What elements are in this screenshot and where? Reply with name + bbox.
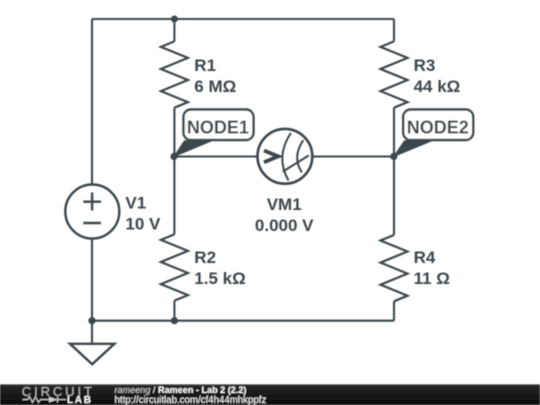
ground xyxy=(70,344,114,364)
wire: R3 bottom lead to NODE2 xyxy=(393,108,395,157)
resistor R3 xyxy=(381,41,408,107)
wire: R3 top lead xyxy=(393,19,395,41)
wire: left vertical to V1 top xyxy=(91,19,93,184)
svg-text:VM1: VM1 xyxy=(267,195,302,214)
label R2 value xyxy=(194,248,245,288)
CircuitLab logo mini schematic (resistor + diode) xyxy=(23,397,67,403)
svg-text:V1: V1 xyxy=(125,193,146,212)
label R4 value xyxy=(414,248,450,288)
svg-text:R4: R4 xyxy=(414,248,436,267)
svg-text:R1: R1 xyxy=(194,56,216,75)
CircuitLab footer bar xyxy=(0,384,540,405)
wire: bottom horizontal ground net xyxy=(92,320,394,322)
wire: VM1 right terminal to NODE2 xyxy=(312,155,394,157)
voltmeter VM1 xyxy=(258,129,313,184)
resistor R4 xyxy=(381,235,408,301)
svg-text:rameeng / Rameen - Lab 2 (2.2): rameeng / Rameen - Lab 2 (2.2) xyxy=(115,385,247,395)
wire: R4 bottom lead xyxy=(393,301,395,320)
wire: R2 bottom lead xyxy=(173,301,175,321)
svg-text:R3: R3 xyxy=(414,56,436,75)
wire: R1 top lead xyxy=(173,19,175,41)
svg-text:6 MΩ: 6 MΩ xyxy=(194,77,236,96)
resistor R1 xyxy=(161,41,188,107)
CircuitLab logo wordmark xyxy=(22,384,95,405)
wire: NODE1 to VM1 left terminal xyxy=(174,155,257,157)
label R3 value xyxy=(414,56,461,96)
node NODE2 junction dot xyxy=(390,153,397,160)
junction dot: top of R1 branch xyxy=(171,16,178,23)
resistor R2 xyxy=(161,234,188,300)
svg-text:0.000 V: 0.000 V xyxy=(255,216,314,235)
footer text: author / title xyxy=(115,385,267,405)
label VM1 value xyxy=(255,195,314,235)
svg-text:NODE2: NODE2 xyxy=(407,118,469,138)
wire: top horizontal net xyxy=(92,18,394,20)
wire: R1 bottom lead to NODE1 xyxy=(173,108,175,157)
junction dot: ground net at V1 xyxy=(88,317,95,324)
label R1 value xyxy=(194,56,236,96)
wire: R2 top lead from NODE1 xyxy=(173,157,175,235)
node NODE1 callout xyxy=(174,110,254,157)
node NODE1 junction dot xyxy=(170,153,177,160)
wire: R4 top lead from NODE2 xyxy=(393,157,395,236)
svg-text:11 Ω: 11 Ω xyxy=(414,269,450,288)
voltage source V1 xyxy=(65,185,119,239)
wire: ground lead xyxy=(91,321,93,343)
node NODE2 callout xyxy=(394,110,473,157)
junction dot: ground net at R2 xyxy=(171,317,178,324)
svg-text:http://circuitlab.com/cf4h44mh: http://circuitlab.com/cf4h44mhkppfz xyxy=(115,395,267,405)
label V1 value xyxy=(125,193,161,233)
svg-text:44 kΩ: 44 kΩ xyxy=(414,77,461,96)
svg-text:1.5 kΩ: 1.5 kΩ xyxy=(194,269,245,288)
svg-text:LAB: LAB xyxy=(67,395,93,405)
wire: V1 bottom lead to ground net xyxy=(91,239,93,321)
svg-text:10 V: 10 V xyxy=(125,214,161,233)
svg-text:R2: R2 xyxy=(194,248,216,267)
svg-text:NODE1: NODE1 xyxy=(187,118,249,138)
